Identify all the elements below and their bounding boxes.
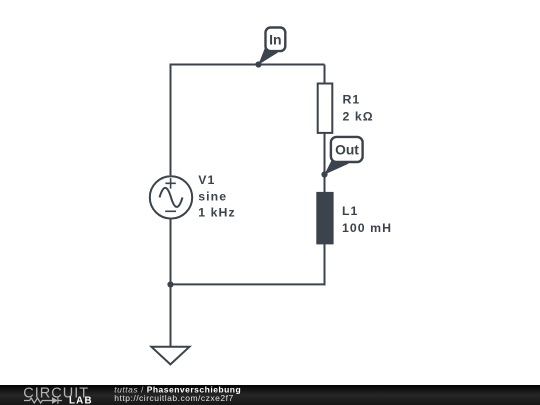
footer bar xyxy=(0,385,540,405)
wire right vertical (to R1 top) xyxy=(324,65,326,84)
wire L1 bottom xyxy=(324,244,326,285)
node In junction xyxy=(255,61,261,67)
node ground junction xyxy=(167,281,173,287)
wire left vertical (top, to V1) xyxy=(170,64,172,176)
svg-text:LAB: LAB xyxy=(69,396,93,405)
wire top horizontal xyxy=(170,64,325,66)
R1 labels xyxy=(343,93,374,124)
V1 labels xyxy=(198,173,235,220)
wire bottom horizontal xyxy=(171,283,326,285)
svg-text:L1: L1 xyxy=(342,204,358,218)
wire R1 bottom to L1 top xyxy=(324,133,326,192)
svg-text:http://circuitlab.com/czxe2f7: http://circuitlab.com/czxe2f7 xyxy=(114,393,233,403)
svg-text:2 kΩ: 2 kΩ xyxy=(343,109,374,123)
inductor L1 xyxy=(316,192,333,245)
voltage source V1 xyxy=(150,176,192,218)
svg-text:In: In xyxy=(269,32,281,48)
svg-text:R1: R1 xyxy=(343,93,361,107)
ground xyxy=(151,347,189,365)
svg-text:V1: V1 xyxy=(198,173,215,187)
footer logo symbol (resistor + diode) xyxy=(24,397,62,404)
svg-text:sine: sine xyxy=(198,189,227,203)
svg-text:1 kHz: 1 kHz xyxy=(198,206,235,220)
resistor R1 xyxy=(318,84,333,133)
node In callout xyxy=(258,28,285,65)
svg-text:100 mH: 100 mH xyxy=(342,221,392,235)
node Out junction xyxy=(321,171,327,177)
svg-text:Out: Out xyxy=(335,143,359,158)
L1 labels xyxy=(342,204,392,235)
wire left vertical (V1 to ground) xyxy=(170,220,172,347)
node Out callout xyxy=(324,137,362,175)
